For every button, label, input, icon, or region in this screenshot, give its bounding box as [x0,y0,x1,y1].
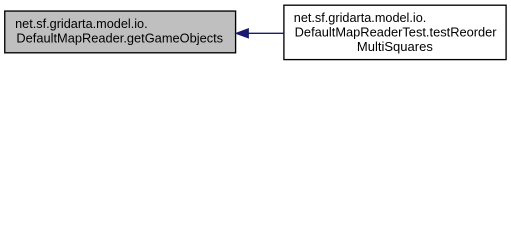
node Node2: net.sf.gridarta.model.io.DefaultMapReaderTest.testReorderMultiSquares (caller, white) [284,5,506,59]
svg-text:net.sf.gridarta.model.io.: net.sf.gridarta.model.io. [15,16,148,31]
arrowhead at Node1 [236,29,249,38]
wire: edge line [248,32,284,34]
svg-text:net.sf.gridarta.model.io.: net.sf.gridarta.model.io. [294,10,427,25]
edge Node1 -> Node2 (caller arrow, midnightblue) [236,29,284,38]
svg-text:DefaultMapReader.getGameObject: DefaultMapReader.getGameObjects [16,30,223,45]
node Node1: net.sf.gridarta.model.io.DefaultMapReader.getGameObjects (current node, grey) [5,11,236,53]
svg-text:DefaultMapReaderTest.testReord: DefaultMapReaderTest.testReorder [295,25,497,40]
svg-text:MultiSquares: MultiSquares [357,39,433,54]
